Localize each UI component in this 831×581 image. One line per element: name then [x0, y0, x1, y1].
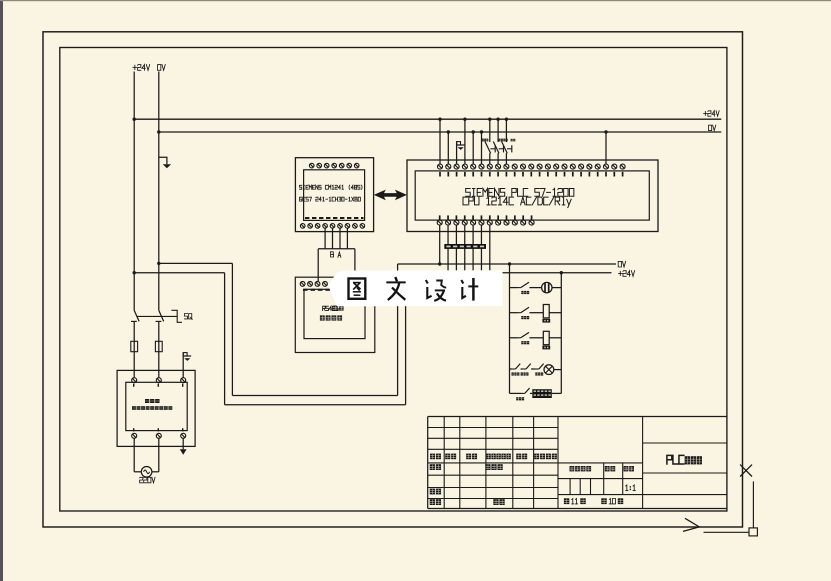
module RS485 terminator text — [320, 306, 344, 321]
wire +24V to PLC L+ pin1 — [438, 118, 441, 165]
node +24V mid label — [619, 271, 635, 277]
node A label — [338, 252, 341, 257]
wire 0V to PLC pin6 — [480, 130, 483, 164]
valve coil YV2 rung 3 — [542, 331, 561, 349]
valve coil YV1 rung 2 — [542, 305, 561, 323]
wire +24V left vertical feeder — [133, 72, 136, 311]
plc U1 top terminal pin labels — [439, 172, 623, 177]
lamp HL1 rung 4 — [544, 365, 561, 375]
module CM1241 text — [300, 185, 363, 201]
wire +24V mid bus to ladder — [406, 272, 612, 274]
node +24V top-left label — [133, 65, 150, 71]
title block row label gongyi — [430, 499, 441, 505]
power supply PM207 text — [132, 399, 172, 410]
title block header texts — [430, 454, 557, 460]
module CM1241 inner box — [304, 170, 365, 221]
switch SQ pole 1 — [131, 310, 139, 321]
device module rung 5 — [532, 389, 561, 398]
wire +24V loop around RS485 module — [134, 273, 405, 405]
title block sheet numbering — [564, 498, 623, 504]
power supply PM207 bottom terminals — [132, 428, 186, 438]
wire 0V to PLC M pin2 — [447, 130, 450, 164]
switch SQ2 to PLC I0.2 — [502, 118, 516, 165]
power supply PM207 outer box — [117, 370, 195, 446]
module CM1241 bottom terminals — [300, 224, 364, 229]
switch SB2 to PLC I0.1 — [493, 118, 507, 165]
node 0V top-left label — [158, 65, 166, 71]
ground PE at PLC pin3 — [457, 142, 465, 164]
wire 0V loop around RS485 module — [159, 263, 398, 395]
watermark char TU — [349, 279, 366, 299]
wire PLC bottom pin1 to 0V bus — [438, 225, 441, 266]
title block row label shenhe — [430, 489, 441, 495]
fuse FU2 — [155, 321, 162, 377]
watermark panel — [328, 270, 503, 306]
plot mark horizontal tick — [704, 531, 750, 533]
contact KA5 rung 5 — [510, 388, 533, 400]
module CM1241 dashed strip — [305, 217, 364, 219]
title block scale 1:1 — [626, 485, 636, 491]
plot mark small square — [749, 528, 757, 536]
wire 0V to PLC pin21 — [604, 130, 607, 164]
node +24V top bus right label — [704, 111, 720, 116]
power supply PM207 inner box — [126, 382, 187, 430]
wire 0V left vertical feeder — [157, 72, 160, 311]
module RS485 terminator dashes — [303, 289, 330, 291]
plc U1 title text — [463, 189, 574, 208]
plc U1 outer box — [407, 160, 658, 232]
ground PE symbol at PM207 top right — [183, 353, 191, 378]
plot mark arrowhead on border — [683, 518, 699, 531]
module CM1241 top terminals — [309, 163, 359, 168]
wire ladder left rail from 0V — [508, 262, 511, 393]
switch SB1 to PLC I0.0 — [482, 118, 495, 165]
module RS485 terminator outer box — [295, 277, 375, 352]
title block middle grid — [558, 417, 727, 509]
title block row label sheji — [430, 464, 441, 470]
drawing inner border — [60, 48, 727, 512]
contact KA1 rung 1 — [510, 282, 542, 294]
plc U1 inner box — [415, 171, 649, 220]
watermark char WEN — [386, 277, 405, 300]
contacts KA4 KA2 rung 4 — [510, 364, 544, 376]
fuse FU1 — [131, 321, 138, 377]
module RS485 terminator terminals — [300, 282, 357, 287]
wire 0V mid bus to ladder — [398, 263, 616, 265]
wire group PLC outputs to +24V bus — [448, 225, 490, 272]
plot mark X — [740, 465, 752, 477]
wire 0V to PLC pin5 — [472, 130, 475, 164]
wire 0V top bus — [159, 131, 722, 133]
wire RS485 B/A harness — [318, 228, 355, 281]
title block outline — [428, 417, 727, 509]
meter M1 rung 1 — [542, 282, 562, 292]
node B label — [331, 252, 334, 257]
title block row label biaozhunhua — [485, 464, 502, 470]
wire ladder right rail from +24V — [560, 271, 563, 393]
node 220V label — [140, 477, 155, 483]
title block drawing name PLC — [667, 455, 702, 464]
plc U1 bottom terminals — [437, 220, 534, 225]
module CM1241 outer box — [295, 158, 373, 232]
watermark char JI — [461, 278, 478, 301]
drawing outer border — [43, 32, 743, 527]
node 0V top bus right label — [709, 125, 716, 130]
switch SQ pole 2 — [156, 310, 164, 321]
module RS485 terminator inner box — [304, 289, 365, 338]
switch SQ linkage and label — [137, 310, 193, 322]
ground arrow at PM207 bottom right — [180, 438, 187, 455]
title block right grid — [643, 443, 727, 473]
ac source G1 220V — [134, 438, 159, 477]
contact KA2 rung 2 — [510, 307, 544, 319]
title block row label pizhun — [493, 499, 504, 505]
watermark char SHE — [426, 280, 446, 301]
plc U1 bottom terminal pin labels — [439, 215, 533, 220]
wire +24V top bus — [134, 118, 721, 120]
plot mark vertical tick — [752, 481, 754, 528]
plc output label strip — [444, 244, 486, 249]
ground PE stub on 0V feeder — [159, 157, 171, 168]
node 0V mid label — [618, 261, 625, 267]
wire +24V to PLC pin4 — [463, 118, 466, 165]
bus arrow between CM1241 and PLC — [374, 190, 407, 201]
contact KA3 rung 3 — [510, 332, 544, 344]
power supply PM207 top terminals — [132, 378, 186, 387]
plc U1 top terminals — [438, 164, 626, 169]
title block stage mark labels — [570, 466, 635, 471]
title block left grid — [428, 417, 643, 509]
